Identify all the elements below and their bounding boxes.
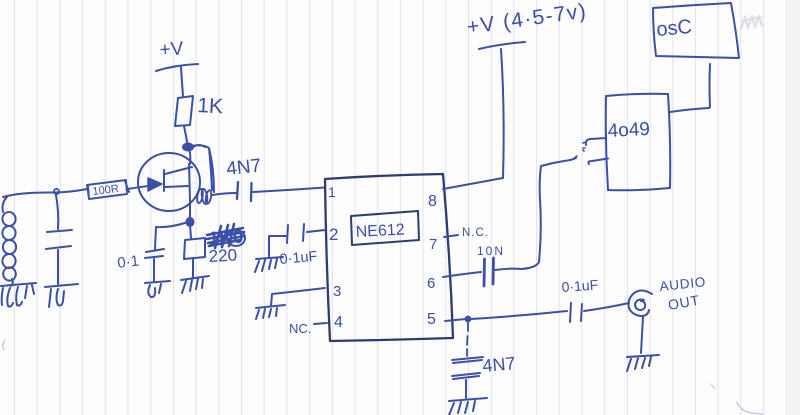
- label 1K: [197, 94, 224, 118]
- OSC box: [653, 3, 739, 58]
- strike lines over 1K0: [207, 224, 245, 248]
- label 10N: [477, 244, 505, 258]
- +V supply bar (top): [479, 42, 525, 49]
- label AUDIO: [659, 274, 707, 294]
- wire: cap to corner and down: [269, 236, 286, 257]
- inductor L1: [1, 197, 16, 286]
- svg-text:4: 4: [334, 314, 343, 331]
- wire: cap to jack: [584, 303, 629, 311]
- wire: 1K to +V bar: [181, 67, 183, 97]
- wire: node B right and down to squiggle: [191, 145, 214, 192]
- transistor Q1 gate arrow: [148, 178, 162, 191]
- label +V (4.5-7v): [465, 0, 588, 39]
- resistor 1K body: [175, 96, 193, 126]
- faint tick bottom right: [711, 384, 715, 389]
- label +V: [159, 38, 185, 61]
- NE612 label box: [351, 211, 419, 245]
- wire: source of Q1 down to node C: [189, 200, 191, 219]
- label 220: [208, 246, 237, 266]
- label 1K0 crossed out: [208, 227, 244, 250]
- label 0.1uF (pin2): [279, 249, 318, 268]
- label NC. pin4: [289, 321, 311, 336]
- +V supply bar: [156, 64, 198, 71]
- transistor Q1 gate bar: [163, 170, 165, 191]
- transistor Q1 internal lines: [165, 167, 192, 187]
- wire: drain up to node B: [189, 148, 190, 164]
- wire: +V vertical: [501, 49, 504, 178]
- label OSC: [656, 16, 693, 41]
- ground (under 0.1 cap): [145, 281, 170, 297]
- resistor 220 box: [184, 238, 205, 259]
- label NE612: [355, 221, 405, 241]
- pin number 5: [427, 311, 436, 328]
- wire: node C to 0.1 cap: [155, 222, 188, 249]
- svg-text:4o49: 4o49: [607, 119, 650, 142]
- wire: pin2 to bypass cap: [307, 230, 325, 232]
- wire: 0.1 cap to ground: [153, 259, 155, 281]
- svg-text:4N7: 4N7: [225, 155, 262, 180]
- svg-text:NC.: NC.: [289, 321, 311, 336]
- node B junction blob: [183, 144, 193, 151]
- pin number 8: [428, 193, 437, 210]
- faint curve bottom right: [737, 402, 763, 414]
- svg-text:10N: 10N: [477, 244, 505, 258]
- capacitor 0.1uF output plates: [570, 303, 582, 322]
- wire: node D down to 4N7: [467, 322, 468, 356]
- wire: 4049 right to OSC: [670, 64, 710, 112]
- capacitor 4N7 input plates: [237, 182, 252, 201]
- pin number 2: [329, 225, 338, 244]
- label 4N7 (input): [225, 155, 262, 180]
- wire: 220 to ground: [192, 259, 194, 277]
- wire: node D to output cap: [471, 311, 567, 319]
- node D junction dot: [466, 317, 471, 322]
- svg-text:+V: +V: [159, 38, 185, 61]
- label 4N7 (bottom): [482, 353, 517, 376]
- wire: pin5 to node D: [445, 319, 466, 321]
- transistor Q1 channel bar: [189, 164, 190, 200]
- capacitor 0.1 plates: [145, 249, 164, 258]
- pin number 6: [427, 275, 435, 292]
- svg-text:1K: 1K: [197, 94, 224, 118]
- ground (pin3): [256, 305, 285, 319]
- audio jack symbol: [629, 291, 653, 317]
- ground (under L1): [1, 283, 36, 307]
- svg-text:4N7: 4N7: [482, 353, 517, 376]
- wire: pin6 to 10N: [443, 272, 481, 277]
- pin number 4: [334, 314, 343, 331]
- svg-text:8: 8: [428, 193, 437, 210]
- capacitor 4N7 bottom plates: [452, 357, 483, 379]
- svg-text:NE612: NE612: [355, 221, 405, 241]
- dash pin7: [444, 235, 458, 237]
- label 0.1: [116, 252, 140, 272]
- IC U1 NE612 box: [325, 174, 453, 341]
- label 4049: [607, 119, 650, 142]
- wire: jack down to ground: [641, 317, 643, 353]
- svg-text:2: 2: [329, 225, 338, 244]
- wire: 4N7 to ground: [465, 380, 467, 398]
- capacitor 0.1uF pin2 plates: [287, 224, 304, 243]
- wire: node B up to 1K resistor: [184, 126, 188, 146]
- capacitor 10N plates: [484, 258, 494, 286]
- ground (under 220): [181, 276, 209, 293]
- wire: pin8 to +V: [443, 178, 503, 189]
- svg-text:0·1uF: 0·1uF: [279, 249, 318, 268]
- wire: 4N7 to NE612 pin1: [253, 188, 325, 193]
- grey smudge top right: [741, 16, 762, 29]
- label OUT: [667, 292, 701, 313]
- svg-text:5: 5: [427, 311, 436, 328]
- wire: squiggle to 4N7: [212, 193, 236, 195]
- wire: pin3 left and down: [271, 288, 325, 306]
- scribble near 4049 stubs: [573, 142, 586, 159]
- svg-text:3: 3: [333, 283, 341, 300]
- squiggle blob on drain wire: [196, 188, 212, 204]
- capacitor C tank: lead from node A: [56, 195, 58, 229]
- ground (4N7): [449, 398, 487, 415]
- transistor Q1 (FET) circle: [138, 153, 200, 211]
- svg-text:1: 1: [328, 184, 336, 200]
- node C junction dot: [187, 218, 194, 226]
- label N.C. pin7: [462, 227, 489, 239]
- wire: input net from coil to 100R: [3, 189, 87, 197]
- pin number 7: [429, 236, 437, 253]
- capacitor C tank plates: [46, 230, 72, 249]
- dash to pin 4: [314, 323, 327, 324]
- wire: node C down to 220: [190, 225, 191, 238]
- 4049 box: [606, 94, 671, 191]
- 4049 upper-left stub: [586, 138, 606, 145]
- label 0.1uF (output): [561, 276, 599, 295]
- ground (under tank cap): [45, 284, 78, 307]
- svg-text:6: 6: [427, 275, 435, 292]
- svg-text:7: 7: [429, 236, 437, 253]
- node A junction dot: [54, 189, 59, 194]
- ground (pin2 cap): [255, 257, 283, 272]
- label 100R: [92, 183, 120, 198]
- svg-text:0·1uF: 0·1uF: [561, 276, 599, 295]
- capacitor C tank: lower lead: [57, 250, 59, 284]
- svg-text:220: 220: [208, 246, 237, 266]
- ground (jack): [627, 355, 659, 371]
- svg-text:N.C.: N.C.: [462, 227, 489, 239]
- wire: 10N up to 4049: [495, 158, 576, 270]
- pin number 1: [328, 184, 336, 200]
- resistor 100R box: [87, 180, 129, 199]
- wire: 100R to gate: [128, 186, 148, 189]
- svg-text:osC: osC: [656, 16, 693, 41]
- pin number 3: [333, 283, 341, 300]
- 4049 lower-left stub: [588, 159, 608, 165]
- stray mark left: [3, 340, 5, 350]
- svg-text:0·1: 0·1: [116, 252, 140, 272]
